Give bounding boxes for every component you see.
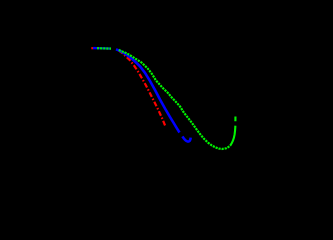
green curve (dotted, U shape) — [119, 50, 231, 149]
blue curve plateau — [93, 47, 111, 50]
red curve tip — [91, 47, 93, 49]
green top dash of right branch — [234, 117, 236, 122]
red curve (dash-dot) — [119, 51, 166, 127]
blue curve descent (solid) — [116, 49, 180, 132]
green right branch solid part — [230, 126, 235, 146]
blue hook at end — [182, 136, 190, 141]
green plateau dotted over blue — [97, 47, 111, 50]
